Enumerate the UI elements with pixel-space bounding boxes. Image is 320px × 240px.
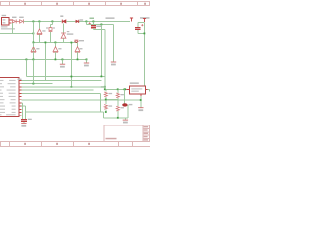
bus H y=59.5 <box>0 59 87 61</box>
node dots on H42 <box>33 42 57 44</box>
wire: crystal jog x=52.5 to x=50 <box>51 22 53 28</box>
MCU net pin4 y=90.1 <box>22 89 94 91</box>
diode D7 (series on net, pointing left) <box>62 20 66 24</box>
ground G5 <box>138 107 143 109</box>
wire between D1 D2 <box>17 21 20 23</box>
MCU pin name rows <box>0 80 16 115</box>
node (101.5,24.5) <box>101 24 103 26</box>
MCU net gnd long y=102.9 <box>22 99 141 101</box>
MCU net pin2 y=83.7 with jog up at x=59 <box>22 83 53 85</box>
diode D8 (series) <box>76 20 79 23</box>
main top net wire <box>24 21 130 23</box>
J1 inner pin marks <box>3 19 6 23</box>
node junction (33.5,33.5) <box>33 33 35 35</box>
J1 name label <box>2 15 7 16</box>
ground G1 <box>62 60 64 64</box>
J1 value label <box>1 26 15 29</box>
ground G2 <box>84 62 89 64</box>
ground G7 under lower line <box>124 118 126 120</box>
MCU pin jog wires down to C4 <box>22 103 26 119</box>
frame top column numbers <box>24 3 146 5</box>
MCU pin stubs <box>19 81 22 116</box>
connector J1 box <box>1 17 9 25</box>
diode row 2: D5c <box>77 43 79 48</box>
wire vertical x=101.5 <box>101 25 103 77</box>
wire C1 bottom to x=104.9 drop <box>94 30 105 90</box>
MCU gnd rail y=112 and lower jog line <box>26 105 129 118</box>
ground G6 <box>21 122 26 124</box>
capacitor C1 <box>93 22 95 26</box>
mid tap H y=99.6 <box>106 99 118 101</box>
column B resistors <box>117 89 119 92</box>
wire: J1 lower pin drop and bottom return <box>0 22 34 34</box>
crystal Q1 <box>49 28 53 32</box>
bus H y=76.5 <box>27 76 105 78</box>
wire through D5a <box>33 43 35 60</box>
MCU net pin3 y=86.9 <box>22 86 105 88</box>
wire: vertical drop x=33.5 <box>33 22 35 60</box>
MCU IC1 box <box>0 78 19 117</box>
resistor R2 column A <box>105 100 107 105</box>
zener column below D7 <box>63 24 65 33</box>
zener ZD1 <box>61 33 66 38</box>
ground G3 <box>111 61 116 63</box>
voltage regulator IC2 <box>130 86 146 94</box>
diode D9 ellipse column C <box>124 89 126 103</box>
title block <box>104 125 150 141</box>
capacitor C4 <box>21 120 27 122</box>
diode D3 <box>37 29 42 35</box>
supply symbol VCC on top net <box>130 18 133 22</box>
wire node86 loop to G3 <box>87 22 114 62</box>
wire vertical x=144.5 to regulator <box>144 23 146 86</box>
node junction dots on top net <box>33 21 95 23</box>
regulator pin stubs <box>127 89 148 96</box>
capacitor C2 <box>135 27 140 29</box>
MCU net pin5 y=93.3 to rail riser <box>22 93 101 112</box>
diode row 2: D5b <box>55 43 57 48</box>
bus H y=42.5 <box>34 42 78 44</box>
node (144.5,33.5) <box>144 33 146 35</box>
supply symbol VCC2 top right <box>143 18 146 22</box>
wire below ZD1 to H42 <box>63 38 65 42</box>
sheet frame bottom band <box>0 142 150 147</box>
red mark cell3 top <box>75 40 79 42</box>
title block small texts <box>106 126 149 141</box>
wire top-right jog <box>138 23 145 27</box>
riser to MCU bus H76.5 <box>26 60 28 77</box>
wire below crystal <box>50 32 52 43</box>
sheet frame top band <box>0 2 150 6</box>
diode D2 <box>20 19 24 23</box>
MCU net pin1 y=80.5 <box>22 80 102 82</box>
frame bottom column numbers <box>24 143 90 145</box>
J1 pin stubs <box>9 20 12 23</box>
wire reg out to ground G5 <box>147 89 149 91</box>
node dots on H59.5 <box>26 59 88 61</box>
G2 branch from cell3 <box>86 60 88 63</box>
regulator input net y=89.4 <box>105 88 128 90</box>
diode row 2: D5a <box>31 47 36 53</box>
wire below D3 <box>39 35 41 43</box>
wire: vertical drop x=39.5 <box>39 22 41 29</box>
resistor R1 column A <box>105 89 107 91</box>
diode D1 <box>12 19 16 23</box>
